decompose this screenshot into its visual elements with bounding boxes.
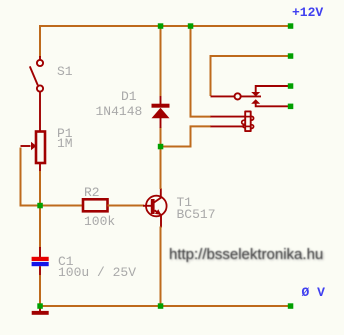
watermark url	[169, 246, 323, 263]
transistor T1 emitter lead	[155, 210, 162, 227]
wire: emitter to 0V rail	[160, 227, 162, 307]
wire: top rail to coil top	[191, 26, 212, 117]
svg-text:1M: 1M	[57, 136, 73, 151]
svg-text:R2: R2	[84, 185, 100, 200]
svg-text:100u / 25V: 100u / 25V	[58, 265, 136, 280]
capacitor C1 plus plate	[32, 257, 49, 261]
relay K1 coil pin bottom	[211, 125, 245, 127]
relay K1 contact pivot	[235, 93, 241, 99]
node: emitter junction on rail	[158, 303, 164, 309]
node: junction rail/D1	[158, 23, 164, 29]
wire: +12V top rail	[40, 25, 290, 27]
diode D1 pin top	[160, 95, 162, 104]
relay K1 bottom contact	[251, 99, 260, 104]
relay K1 coil pin top	[211, 116, 246, 118]
wire: rail corner down to S1	[39, 25, 41, 57]
diode D1 pin bottom	[160, 118, 162, 128]
wire: top rail to D1	[160, 26, 162, 96]
svg-text:Ø V: Ø V	[302, 285, 326, 300]
node: junction collector/D1/coil	[158, 144, 164, 150]
resistor R2	[83, 199, 108, 211]
node: junction at ground	[37, 303, 43, 309]
svg-text:S1: S1	[57, 64, 73, 79]
transistor T1	[146, 196, 167, 217]
wire: collector to junction	[160, 147, 162, 190]
P1 wiper arrow	[21, 145, 31, 147]
wire: relay common net	[211, 56, 291, 96]
svg-text:BC517: BC517	[177, 207, 216, 222]
relay K1 contact arm	[241, 95, 261, 97]
capacitor C1 pin bottom	[39, 266, 41, 276]
wire: junction down to C1	[39, 206, 41, 249]
transistor T1 base pin	[143, 205, 151, 207]
node: junction P1/R2/C1	[37, 203, 43, 209]
switch S1 pin top stub	[39, 56, 41, 60]
wire: P1 bottom pin	[39, 164, 41, 173]
node: 0V rail right pin	[288, 303, 294, 309]
svg-text:1N4148: 1N4148	[96, 104, 143, 119]
relay K1 common pin lead	[211, 95, 235, 97]
capacitor C1 minus plate	[32, 262, 49, 266]
wire: wiper to base row	[21, 148, 84, 206]
node: bottom contact pin	[288, 104, 294, 110]
node: relay common pin	[288, 53, 294, 59]
wire: R2 to T1 base	[108, 205, 145, 207]
svg-text:100k: 100k	[84, 214, 115, 229]
node: junction rail/coil	[188, 23, 194, 29]
ground symbol	[32, 311, 49, 315]
switch S1	[30, 60, 43, 92]
transistor T1 collector lead	[154, 188, 161, 203]
wire: D1 anode to junction	[160, 127, 162, 147]
node: +12V rail right pin	[288, 23, 294, 29]
wire: S1 to P1	[39, 92, 41, 131]
wire: 0V bottom rail	[40, 305, 290, 307]
wire: P1 to junction	[39, 171, 41, 206]
potentiometer P1	[36, 132, 45, 164]
node: top contact pin	[288, 83, 294, 89]
svg-text:D1: D1	[121, 89, 137, 104]
wire: junction to coil bottom	[161, 126, 212, 146]
svg-text:+12V: +12V	[292, 5, 323, 20]
ground stub	[39, 308, 41, 311]
relay K1 coil	[242, 111, 254, 131]
wire: C1 to bottom junction	[39, 275, 41, 304]
relay K1 top contact	[251, 92, 260, 96]
diode D1	[152, 104, 170, 108]
capacitor C1 pin top	[39, 247, 41, 257]
